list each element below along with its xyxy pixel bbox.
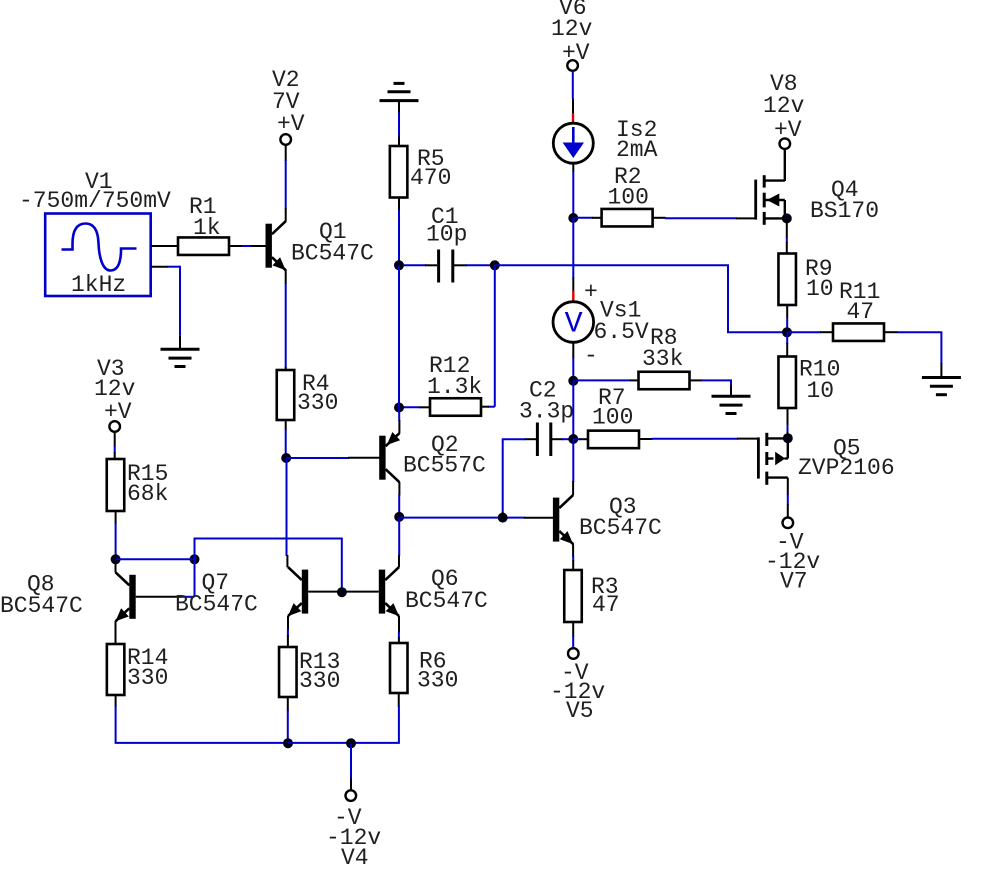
wire R14 to bottom rail	[116, 695, 288, 743]
capacitor C2 label	[519, 378, 574, 425]
capacitor C1 label	[426, 204, 467, 248]
resistor R15 label	[127, 461, 168, 507]
resistor R5 label	[410, 146, 451, 191]
svg-text:470: 470	[410, 165, 451, 191]
wire Q8 collector stub	[115, 559, 117, 572]
svg-text:330: 330	[299, 668, 340, 694]
wire R5C1 node down to R12 node	[398, 265, 400, 407]
svg-text:-750m/750mV: -750m/750mV	[19, 188, 171, 214]
resistor R13 label	[299, 649, 340, 694]
wire R4 to node below	[285, 420, 287, 459]
wire R2 to Q4 gate	[653, 217, 756, 220]
wire Vs1 node down to C2/R7 node	[572, 381, 574, 439]
node C2/R7 junction	[568, 434, 578, 444]
transistor Q4 label	[810, 177, 879, 224]
transistor Q6 label	[405, 566, 488, 614]
wire node to R10	[786, 332, 788, 357]
voltage source Vs1 6.5V	[553, 302, 594, 343]
node Q4 source junction	[782, 213, 792, 223]
terminal V4 -V label	[326, 805, 381, 871]
terminal V2	[280, 134, 291, 145]
svg-text:V5: V5	[566, 698, 594, 724]
resistor R1 1k	[178, 237, 229, 255]
transistor Q3 label	[579, 494, 662, 541]
svg-text:330: 330	[417, 668, 458, 694]
svg-text:ZVP2106: ZVP2106	[798, 455, 895, 481]
node R9/R10/R11 junction	[782, 327, 792, 337]
wire base tie to Q7/Q6 base node (feedback)	[195, 539, 342, 590]
node Q5 source junction	[783, 433, 793, 443]
capacitor C1 10p	[439, 250, 453, 283]
svg-text:-: -	[584, 343, 598, 369]
wire V6 to Is2	[572, 71, 574, 123]
node R12/Q2 emitter junction	[394, 403, 404, 413]
voltage source Vs1 minus sign	[584, 343, 598, 369]
svg-text:10: 10	[806, 276, 834, 302]
voltage source Vs1 plus sign	[584, 279, 598, 305]
current source Is2 2mA	[553, 123, 593, 163]
transistor Q1 BC547C (NPN)	[266, 221, 286, 270]
wire C2 right lead	[552, 438, 573, 440]
svg-text:V4: V4	[341, 845, 369, 871]
wire Q8 base lead	[136, 596, 195, 598]
node V4 stem junction	[346, 738, 356, 748]
svg-text:100: 100	[608, 185, 649, 211]
wire base tie down to Q8 base	[194, 559, 196, 597]
resistor R7 label	[592, 385, 633, 431]
resistor R5 470	[390, 146, 408, 198]
resistor R8 33k	[639, 372, 690, 390]
terminal V3 +V label	[94, 356, 136, 425]
wire C1 right lead	[454, 264, 495, 266]
transistor Q1 label	[291, 219, 374, 267]
resistor R14 330	[107, 644, 125, 695]
resistor R4 label	[297, 371, 338, 416]
svg-text:68k: 68k	[127, 481, 168, 507]
svg-text:+V: +V	[277, 111, 305, 137]
transistor Q2 BC557C (PNP)	[379, 432, 400, 482]
wire ground to R5	[398, 101, 400, 147]
resistor R2 label	[608, 164, 649, 211]
svg-text:BC547C: BC547C	[579, 515, 662, 541]
terminal V7	[783, 518, 794, 529]
voltage source V1 label	[19, 169, 171, 214]
resistor R10 10	[778, 357, 796, 409]
wire V1 output to R1	[151, 245, 178, 247]
svg-text:12v: 12v	[763, 93, 805, 119]
wire R6 to bottom rail	[288, 693, 399, 743]
wire Q7/Q6 base line	[308, 591, 379, 593]
node Vs1-/R8 junction	[568, 376, 578, 386]
resistor R6 label	[417, 649, 458, 694]
wire Q3 emitter to R3	[572, 544, 574, 572]
resistor R14 label	[127, 645, 168, 691]
wire R7 to Q5 gate	[639, 438, 759, 440]
wire Q4 source to R9	[786, 218, 788, 254]
terminal V5	[568, 648, 579, 659]
ground (top, above R5)	[380, 83, 419, 100]
current source Is2 label	[616, 117, 658, 163]
wire R5 to C1 node	[398, 198, 400, 267]
resistor R9 label	[805, 256, 834, 302]
svg-text:BS170: BS170	[810, 198, 879, 224]
wire Q6 emitter to R6	[398, 616, 400, 644]
resistor R2 100	[602, 209, 653, 227]
resistor R12 label	[427, 353, 482, 400]
resistor R1 label	[189, 194, 221, 241]
resistor R3 47	[564, 570, 582, 622]
voltage source V1 (sine source box, 1kHz)	[45, 214, 151, 299]
svg-text:2mA: 2mA	[616, 137, 658, 163]
transistor Q7 BC547C (NPN, mirrored)	[288, 567, 308, 616]
wire Q8 emitter to R14	[115, 621, 117, 645]
svg-text:100: 100	[592, 405, 633, 431]
svg-text:BC557C: BC557C	[403, 453, 486, 479]
transistor Q5 label	[798, 436, 895, 482]
resistor R8 label	[642, 325, 683, 372]
wire node to Q2 base	[286, 457, 379, 459]
resistor R15 68k	[107, 459, 125, 511]
wire Q1 emitter to R4	[285, 270, 287, 372]
svg-text:47: 47	[592, 592, 620, 618]
wire R12 left lead	[399, 406, 430, 408]
wire R8 to ground	[690, 380, 732, 396]
svg-text:BC547C: BC547C	[405, 588, 488, 614]
resistor R11 label	[839, 279, 880, 325]
svg-text:BC547C: BC547C	[291, 241, 374, 267]
wire R12 node to Q2 emitter	[398, 408, 400, 434]
wire node down to Q7 collector	[286, 458, 289, 567]
wire C1 left lead	[403, 264, 437, 266]
wire R10 to Q5 source node	[787, 408, 789, 438]
svg-text:47: 47	[847, 299, 875, 325]
node C2/Q3 base junction	[498, 513, 508, 523]
transistor Q7 label	[175, 570, 258, 618]
wire V2 to Q1 collector	[285, 145, 287, 222]
svg-text:6.5V: 6.5V	[594, 319, 649, 345]
svg-text:BC547C: BC547C	[0, 593, 83, 619]
terminal V7 -V label	[765, 530, 820, 595]
wire R13 to bottom rail	[287, 697, 289, 742]
wire R2 node to Vs1	[572, 218, 574, 302]
wire node to R7	[573, 438, 588, 440]
resistor R3 label	[591, 574, 620, 618]
wire C2/R7 node down to Q3 collector	[572, 439, 574, 495]
terminal V8	[780, 138, 791, 149]
resistor R6 330	[390, 643, 408, 693]
svg-text:10: 10	[807, 378, 835, 404]
transistor Q4 BS170 (NMOS)	[756, 175, 787, 225]
terminal V8 +V label	[763, 71, 805, 143]
wire Q2 collector node down to Q6 collector	[398, 518, 400, 568]
node R15/Q8 collector junction	[111, 554, 121, 564]
wire node to R8	[573, 379, 639, 381]
wire C1 node to R9/R10 node (long)	[495, 265, 785, 332]
svg-text:1kHz: 1kHz	[71, 272, 126, 298]
resistor R4 330	[277, 370, 295, 420]
svg-text:+: +	[584, 279, 598, 305]
wire Q2 collector down to node	[398, 482, 400, 518]
wire V4 stem	[350, 743, 352, 790]
svg-text:V: V	[565, 308, 583, 342]
resistor R9 10	[778, 254, 796, 306]
svg-text:1.3k: 1.3k	[427, 374, 482, 400]
svg-text:330: 330	[127, 665, 168, 691]
transistor Q3 BC547C (NPN)	[553, 495, 573, 544]
transistor Q8 BC547C (NPN, mirrored)	[116, 572, 136, 621]
ground (below V1)	[161, 349, 200, 366]
terminal V5 -V label	[550, 660, 605, 724]
svg-text:V7: V7	[780, 569, 808, 595]
wire R9 to node	[786, 305, 788, 330]
wire Q8 collector to base tie	[116, 558, 195, 560]
node Q8 base tie junction	[190, 554, 200, 564]
wire Q5 drain to terminal V7	[787, 478, 789, 518]
capacitor C2 3.3p	[537, 423, 550, 457]
wire R15 to Q8 collector node	[115, 511, 117, 559]
terminal V6 +V label	[551, 0, 593, 66]
node R13/rail junction	[283, 738, 293, 748]
svg-text:3.3p: 3.3p	[519, 399, 574, 425]
node Q2 collector junction	[394, 512, 404, 522]
transistor Q8 label	[0, 572, 83, 620]
wire C1 node down to R12 right	[481, 265, 495, 406]
ground (right, below R11)	[922, 378, 961, 395]
wire V3 to R15	[114, 432, 116, 460]
svg-text:10p: 10p	[426, 222, 467, 248]
node R5/C1 junction	[394, 260, 404, 270]
node C1/R12 junction	[490, 260, 500, 270]
wire Is2 to R2 node	[572, 163, 574, 218]
wire Vs1 to R8 node	[572, 342, 574, 380]
node R4/Q2-base junction	[281, 453, 291, 463]
resistor R11 47	[833, 323, 884, 341]
svg-text:12v: 12v	[551, 16, 593, 42]
resistor R13 330	[279, 647, 297, 697]
resistor R7 100	[588, 431, 639, 449]
terminal V3	[109, 421, 120, 432]
svg-text:33k: 33k	[642, 346, 683, 372]
wire V8 to Q4 drain	[784, 149, 786, 181]
transistor Q5 ZVP2106 (PMOS)	[758, 433, 787, 485]
node Q7/Q6 base junction	[337, 587, 347, 597]
voltage source Vs1 label	[594, 298, 649, 346]
wire R11 to ground	[884, 332, 941, 377]
wire V1 bottom terminal to ground	[151, 266, 180, 349]
node Is2/R2 junction	[568, 213, 578, 223]
terminal V2 +V label	[272, 67, 305, 137]
wire R1 to Q1 base	[229, 245, 266, 247]
resistor R10 label	[799, 357, 840, 405]
resistor R12 1.3k	[430, 398, 481, 416]
svg-text:330: 330	[297, 390, 338, 416]
wire R2 left lead	[573, 217, 602, 219]
wire R3 to terminal V5	[572, 622, 574, 649]
svg-text:BC547C: BC547C	[175, 592, 258, 618]
ground (below R8)	[712, 396, 751, 413]
terminal V4	[346, 790, 357, 801]
wire Q7 emitter to R13	[287, 616, 289, 648]
terminal V6	[567, 60, 578, 71]
wire C2 left lead and drop to Q3 base node	[503, 439, 537, 517]
transistor Q6 BC547C (NPN)	[379, 567, 399, 616]
wire Q2 collector node to Q3 base	[399, 517, 553, 519]
transistor Q2 label	[403, 432, 486, 479]
wire node to R11	[787, 331, 833, 333]
